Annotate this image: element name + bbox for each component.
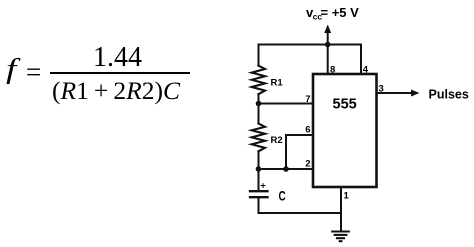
- wire C top: [258, 169, 260, 190]
- svg-text:R1: R1: [271, 78, 284, 89]
- node pin7 junction: [256, 101, 262, 107]
- resistor R2: [252, 124, 265, 152]
- svg-text:1: 1: [344, 191, 350, 202]
- node Vcc junction: [325, 42, 331, 48]
- wire R1 bottom: [258, 94, 260, 103]
- wire R2 top: [258, 104, 260, 124]
- wire pin 6: [286, 135, 313, 169]
- wire pin4 drop: [360, 45, 362, 75]
- svg-text:C: C: [279, 188, 286, 204]
- ground: [332, 232, 349, 242]
- svg-text:Pulses: Pulses: [429, 88, 469, 102]
- wire pin 7: [259, 103, 314, 105]
- Vcc label: [306, 5, 359, 22]
- svg-text:R2: R2: [271, 135, 283, 146]
- wire R2 bottom: [258, 151, 260, 169]
- formula f = 1.44 / ((R1+2R2)C): [6, 53, 16, 86]
- wire top rail: [259, 44, 362, 46]
- resistor R1: [252, 66, 265, 95]
- node pin6 drop junction: [283, 166, 289, 172]
- capacitor C: [250, 191, 268, 197]
- wire pin 3 output: [377, 92, 414, 94]
- wire pin8 drop: [327, 45, 329, 75]
- svg-text:+: +: [260, 181, 266, 192]
- svg-text:7: 7: [305, 94, 310, 105]
- wire C bottom: [259, 198, 342, 213]
- svg-text:= +5 V: = +5 V: [321, 5, 360, 20]
- IC U1: 555 timer box: [313, 74, 377, 187]
- svg-text:555: 555: [333, 97, 357, 113]
- wire pin 1 to ground: [340, 187, 342, 231]
- svg-text:3: 3: [379, 84, 384, 95]
- svg-text:2: 2: [305, 159, 310, 170]
- Vcc arrow: [327, 31, 329, 45]
- svg-text:6: 6: [305, 125, 310, 136]
- wire pin 2: [259, 168, 314, 170]
- wire R1 top: [258, 45, 260, 66]
- node R2-C junction: [256, 166, 262, 172]
